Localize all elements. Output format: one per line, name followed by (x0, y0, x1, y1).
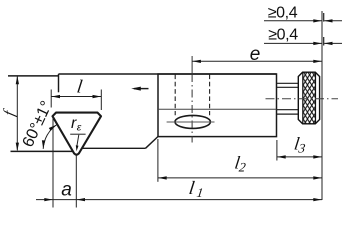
wire: threaded rod inner top (277, 86, 299, 88)
wire: step vertical at insert pocket (58, 74, 60, 92)
extension line left corner a (52, 116, 54, 208)
svg-text:a: a (61, 179, 72, 200)
tick for gap 1 (323, 13, 325, 22)
wire: hidden hole line left (174, 75, 176, 116)
node: cartridge body block (158, 74, 277, 137)
r_e leader arrow (77, 135, 79, 147)
wire: knob chamfer edge left (302, 72, 304, 123)
dimension ge04 second (264, 42, 322, 44)
dimension l2 extension (157, 139, 159, 182)
wire: top surface line right segment / block top (59, 73, 277, 75)
angle arc 60 deg (43, 125, 57, 149)
knurl band (303, 72, 316, 123)
dimension l3 extension (276, 140, 278, 161)
wire: knob axis dash-dot centerline (266, 98, 339, 100)
wire: bottom surface right of tip (82, 147, 146, 149)
dimension l extension right (100, 90, 102, 111)
wire: hidden hole line right (209, 75, 211, 116)
dimension f vertical line (16, 77, 18, 151)
node: triangular insert (53, 113, 102, 155)
feed direction arrow (134, 88, 149, 90)
extension line tip a/l1 (75, 156, 77, 208)
dimension l2 line (158, 177, 322, 179)
dimension e line (192, 60, 322, 62)
node: knurled knob outline (298, 72, 319, 124)
svg-text:≥0,4: ≥0,4 (268, 5, 298, 22)
wire: threaded rod outer top (277, 82, 299, 84)
dimension l3 line (277, 156, 322, 158)
right common extension line (321, 11, 323, 200)
dimension a + l1 line (36, 199, 322, 201)
dimension l extension left (50, 90, 52, 108)
node: slot ellipse (175, 115, 210, 128)
wire: vertical centerline of hole / e extension (191, 56, 193, 74)
dimension ge04 first (264, 20, 322, 22)
wire: block mid seat line (158, 108, 277, 110)
wire: threaded rod outer bottom (277, 113, 299, 115)
wire: slot horizontal centerline (167, 121, 215, 123)
dimension l line (51, 96, 101, 98)
wire: threaded rod inner bottom (277, 109, 299, 111)
svg-text:e: e (250, 44, 261, 65)
wire: top surface line left segment (8, 75, 59, 77)
wire: bottom machined surface left of tip (11, 150, 77, 152)
svg-text:≥0,4: ≥0,4 (268, 27, 298, 44)
r_e underline (70, 133, 85, 135)
wire: knob chamfer edge right (315, 72, 317, 123)
wire: diagonal up to block bottom corner (146, 137, 158, 149)
tick for gap 2 (323, 37, 325, 46)
